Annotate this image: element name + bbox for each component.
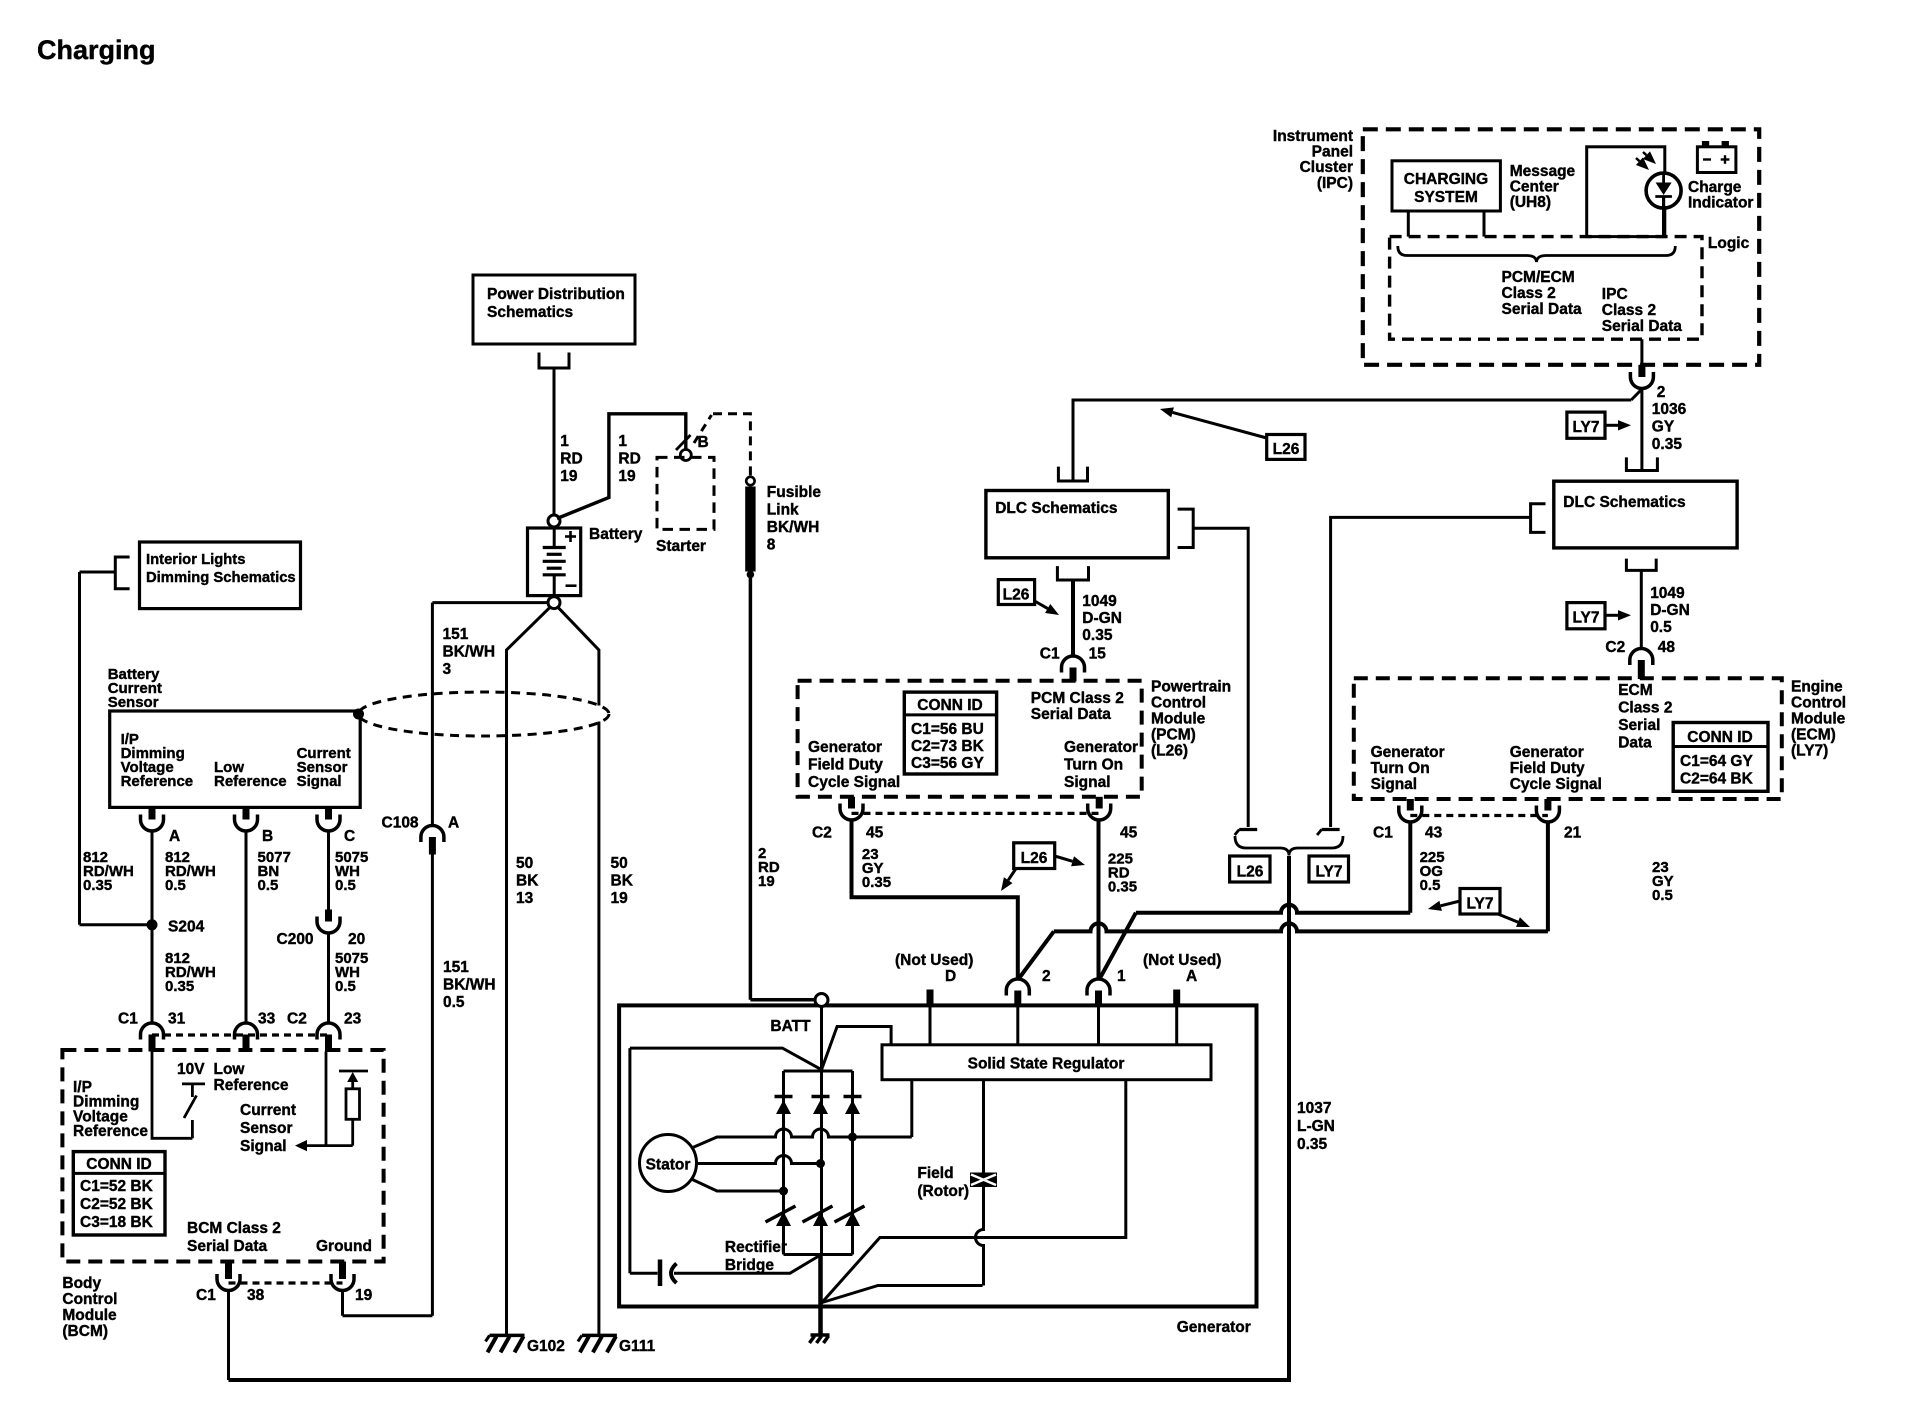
svg-text:Logic: Logic (1708, 235, 1750, 252)
svg-text:31: 31 (168, 1011, 186, 1028)
svg-text:L26: L26 (1273, 441, 1300, 458)
svg-text:Field Duty: Field Duty (1510, 760, 1585, 777)
svg-text:BK: BK (516, 873, 539, 890)
svg-text:Serial Data: Serial Data (1602, 318, 1683, 335)
svg-text:50: 50 (516, 855, 533, 872)
svg-text:Stator: Stator (646, 1157, 691, 1174)
svg-text:DLC Schematics: DLC Schematics (995, 500, 1117, 517)
svg-text:BATT: BATT (770, 1018, 811, 1035)
svg-text:C1: C1 (196, 1287, 216, 1304)
svg-text:Reference: Reference (214, 1077, 289, 1094)
svg-text:13: 13 (516, 890, 534, 907)
svg-text:Interior Lights: Interior Lights (146, 552, 245, 568)
svg-text:C1: C1 (1040, 645, 1060, 662)
svg-text:CONN ID: CONN ID (86, 1156, 151, 1173)
svg-text:DLC Schematics: DLC Schematics (1563, 494, 1685, 511)
svg-text:ECM: ECM (1618, 682, 1652, 699)
svg-text:A: A (448, 815, 459, 832)
svg-text:Module: Module (1151, 711, 1206, 728)
svg-text:S204: S204 (168, 919, 205, 936)
svg-text:19: 19 (611, 890, 629, 907)
svg-text:C3=18 BK: C3=18 BK (80, 1214, 154, 1231)
svg-text:D: D (945, 968, 956, 985)
svg-text:C1=56 BU: C1=56 BU (911, 721, 984, 738)
svg-text:Cycle Signal: Cycle Signal (1510, 776, 1602, 793)
svg-text:C3=56 GY: C3=56 GY (911, 755, 984, 772)
svg-text:19: 19 (355, 1287, 373, 1304)
svg-text:Serial Data: Serial Data (187, 1238, 268, 1255)
svg-text:0.35: 0.35 (83, 877, 112, 894)
svg-text:Generator: Generator (1371, 744, 1445, 761)
svg-text:C1: C1 (118, 1011, 138, 1028)
svg-text:CONN ID: CONN ID (1687, 729, 1752, 746)
svg-text:Current: Current (240, 1102, 296, 1119)
svg-text:0.35: 0.35 (862, 874, 891, 891)
svg-text:LY7: LY7 (1572, 610, 1599, 627)
svg-text:LY7: LY7 (1315, 864, 1342, 881)
svg-text:(PCM): (PCM) (1151, 727, 1196, 744)
svg-text:Data: Data (1618, 735, 1652, 752)
svg-text:1037: 1037 (1297, 1100, 1331, 1117)
svg-text:(L26): (L26) (1151, 743, 1188, 760)
svg-text:45: 45 (1120, 825, 1138, 842)
svg-text:Generator: Generator (1177, 1319, 1251, 1336)
svg-text:C108: C108 (382, 815, 419, 832)
svg-text:Ground: Ground (316, 1238, 372, 1255)
svg-text:0.35: 0.35 (1082, 627, 1113, 644)
svg-text:A: A (169, 828, 180, 845)
svg-text:(Not Used): (Not Used) (1143, 952, 1221, 969)
svg-text:G102: G102 (527, 1338, 565, 1355)
svg-text:LY7: LY7 (1466, 896, 1493, 913)
svg-text:(ECM): (ECM) (1791, 727, 1836, 744)
svg-text:Signal: Signal (297, 773, 342, 790)
svg-text:Powertrain: Powertrain (1151, 679, 1231, 696)
svg-text:2: 2 (1657, 384, 1666, 401)
svg-text:Reference: Reference (121, 773, 194, 790)
svg-text:Signal: Signal (1371, 776, 1418, 793)
svg-text:GY: GY (1652, 419, 1675, 436)
svg-text:(UH8): (UH8) (1510, 194, 1551, 211)
svg-text:LY7: LY7 (1572, 419, 1599, 436)
svg-text:1049: 1049 (1082, 593, 1117, 610)
svg-text:43: 43 (1425, 825, 1443, 842)
svg-text:C2=73 BK: C2=73 BK (911, 738, 985, 755)
svg-text:0.35: 0.35 (1108, 879, 1137, 896)
svg-text:(IPC): (IPC) (1317, 175, 1353, 192)
svg-text:20: 20 (348, 931, 365, 948)
svg-text:1036: 1036 (1652, 401, 1687, 418)
svg-text:Class 2: Class 2 (1618, 700, 1672, 717)
svg-text:19: 19 (618, 468, 636, 485)
svg-text:C2: C2 (1605, 639, 1625, 656)
svg-text:48: 48 (1658, 639, 1676, 656)
svg-text:2: 2 (1042, 968, 1051, 985)
svg-text:Reference: Reference (73, 1123, 148, 1140)
svg-text:C2: C2 (287, 1011, 307, 1028)
svg-text:0.35: 0.35 (165, 978, 194, 995)
svg-text:151: 151 (443, 626, 469, 643)
svg-text:Bridge: Bridge (725, 1257, 774, 1274)
svg-text:Turn On: Turn On (1064, 757, 1123, 774)
svg-text:(Rotor): (Rotor) (917, 1183, 969, 1200)
svg-text:B: B (262, 828, 273, 845)
svg-text:C2=64 BK: C2=64 BK (1680, 771, 1754, 788)
svg-text:0.5: 0.5 (1652, 887, 1673, 904)
svg-text:19: 19 (758, 873, 775, 890)
svg-text:Starter: Starter (656, 538, 706, 555)
svg-text:10V: 10V (177, 1061, 205, 1078)
svg-text:Charge: Charge (1688, 179, 1742, 196)
svg-text:Power Distribution: Power Distribution (487, 286, 625, 303)
svg-text:Panel: Panel (1312, 144, 1353, 161)
svg-text:Cluster: Cluster (1300, 159, 1353, 176)
svg-text:Schematics: Schematics (487, 304, 573, 321)
svg-text:Module: Module (62, 1307, 117, 1324)
svg-text:0.5: 0.5 (1650, 619, 1672, 636)
svg-text:0.5: 0.5 (443, 994, 465, 1011)
svg-text:Turn On: Turn On (1371, 760, 1430, 777)
svg-text:38: 38 (247, 1287, 265, 1304)
svg-text:C2: C2 (812, 825, 832, 842)
svg-text:Serial: Serial (1618, 717, 1660, 734)
svg-text:Engine: Engine (1791, 679, 1843, 696)
svg-text:(BCM): (BCM) (62, 1323, 108, 1340)
svg-text:RD: RD (618, 451, 640, 468)
svg-text:0.35: 0.35 (1652, 436, 1683, 453)
svg-text:BK: BK (611, 873, 634, 890)
svg-text:45: 45 (866, 825, 884, 842)
svg-text:RD: RD (560, 451, 582, 468)
svg-text:D-GN: D-GN (1650, 602, 1690, 619)
svg-text:50: 50 (611, 855, 628, 872)
svg-text:Fusible: Fusible (767, 484, 822, 501)
svg-text:Signal: Signal (1064, 774, 1111, 791)
svg-text:0.5: 0.5 (165, 877, 186, 894)
svg-text:C2=52 BK: C2=52 BK (80, 1196, 154, 1213)
svg-text:L26: L26 (1021, 850, 1048, 867)
svg-text:Module: Module (1791, 711, 1846, 728)
svg-text:Center: Center (1510, 179, 1559, 196)
svg-text:Generator: Generator (1064, 739, 1138, 756)
svg-text:Indicator: Indicator (1688, 195, 1753, 212)
svg-text:Field Duty: Field Duty (808, 757, 883, 774)
svg-text:CHARGING: CHARGING (1404, 171, 1488, 188)
svg-text:1049: 1049 (1650, 585, 1685, 602)
svg-text:PCM Class 2: PCM Class 2 (1031, 690, 1124, 707)
svg-text:Low: Low (214, 1061, 246, 1078)
svg-text:8: 8 (767, 537, 776, 554)
svg-text:Class 2: Class 2 (1502, 285, 1556, 302)
svg-text:Sensor: Sensor (240, 1120, 293, 1137)
svg-text:Control: Control (1151, 695, 1206, 712)
svg-text:Cycle Signal: Cycle Signal (808, 774, 900, 791)
svg-text:0.5: 0.5 (1420, 877, 1441, 894)
svg-text:Reference: Reference (214, 773, 287, 790)
svg-text:Solid State Regulator: Solid State Regulator (968, 1056, 1125, 1073)
svg-text:C1: C1 (1373, 825, 1393, 842)
svg-text:Instrument: Instrument (1273, 128, 1353, 145)
svg-text:A: A (1186, 968, 1197, 985)
svg-text:33: 33 (258, 1011, 276, 1028)
svg-text:19: 19 (560, 468, 578, 485)
svg-text:3: 3 (443, 661, 452, 678)
svg-text:0.35: 0.35 (1297, 1136, 1328, 1153)
svg-text:0.5: 0.5 (335, 877, 356, 894)
svg-text:BK/WH: BK/WH (443, 977, 496, 994)
svg-text:L26: L26 (1003, 587, 1030, 604)
svg-text:0.5: 0.5 (258, 877, 279, 894)
svg-text:23: 23 (344, 1011, 362, 1028)
svg-text:G111: G111 (619, 1338, 656, 1355)
svg-text:Signal: Signal (240, 1138, 287, 1155)
svg-text:Battery: Battery (589, 526, 643, 543)
svg-text:C1=64 GY: C1=64 GY (1680, 753, 1753, 770)
svg-text:Serial Data: Serial Data (1502, 301, 1583, 318)
svg-text:Body: Body (62, 1275, 101, 1292)
svg-text:Control: Control (1791, 695, 1846, 712)
svg-text:Sensor: Sensor (108, 694, 159, 711)
svg-text:21: 21 (1564, 825, 1582, 842)
svg-text:(Not Used): (Not Used) (895, 952, 973, 969)
svg-text:Link: Link (767, 502, 799, 519)
svg-text:Serial Data: Serial Data (1031, 706, 1112, 723)
svg-text:IPC: IPC (1602, 286, 1628, 303)
svg-text:SYSTEM: SYSTEM (1414, 189, 1478, 206)
svg-text:BCM Class 2: BCM Class 2 (187, 1220, 281, 1237)
svg-text:Control: Control (62, 1291, 117, 1308)
svg-text:1: 1 (560, 433, 569, 450)
svg-text:Charging: Charging (37, 35, 156, 65)
svg-text:L-GN: L-GN (1297, 1118, 1335, 1135)
svg-text:Dimming Schematics: Dimming Schematics (146, 570, 296, 586)
svg-text:(LY7): (LY7) (1791, 743, 1828, 760)
svg-text:BK/WH: BK/WH (767, 519, 820, 536)
svg-text:Field: Field (917, 1165, 953, 1182)
svg-text:1: 1 (1117, 968, 1126, 985)
svg-text:Generator: Generator (808, 739, 882, 756)
svg-text:C1=52 BK: C1=52 BK (80, 1178, 154, 1195)
svg-text:L26: L26 (1237, 864, 1264, 881)
svg-text:D-GN: D-GN (1082, 610, 1122, 627)
svg-text:PCM/ECM: PCM/ECM (1502, 269, 1575, 286)
svg-text:BK/WH: BK/WH (443, 644, 496, 661)
svg-text:151: 151 (443, 959, 469, 976)
svg-text:B: B (698, 434, 709, 451)
svg-text:C200: C200 (277, 931, 314, 948)
svg-text:Message: Message (1510, 163, 1576, 180)
svg-text:Rectifier: Rectifier (725, 1239, 787, 1256)
svg-text:1: 1 (618, 433, 627, 450)
svg-text:0.5: 0.5 (335, 978, 356, 995)
svg-text:Class 2: Class 2 (1602, 302, 1656, 319)
svg-text:Generator: Generator (1510, 744, 1584, 761)
svg-text:C: C (344, 828, 355, 845)
svg-text:CONN ID: CONN ID (917, 697, 982, 714)
svg-text:15: 15 (1089, 645, 1107, 662)
